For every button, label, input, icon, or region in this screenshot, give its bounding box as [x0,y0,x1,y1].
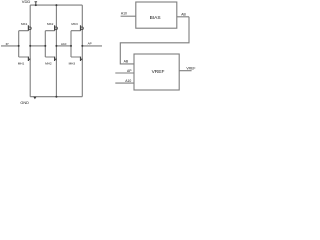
wire node AP [82,45,102,47]
ground symbol [33,97,36,100]
svg-text:A10: A10 [121,12,127,16]
wire VDD top rail [30,4,82,6]
transistor MK1 PMOS [28,25,31,30]
svg-text:AB: AB [181,12,186,16]
pin AB of BIAS [177,16,189,18]
wire channel column 2 [55,5,57,97]
transistor MH2 NMOS [54,57,56,61]
wire node A10 [56,45,71,47]
wire input IP [1,45,19,47]
block U1 BIAS [136,2,177,28]
pin A10 of BIAS [121,15,136,17]
wire net AB wrap-around [120,17,189,64]
transistor MK2 PMOS [55,25,58,30]
svg-text:MH1: MH1 [18,62,25,66]
svg-text:MH2: MH2 [45,62,52,66]
pin A10 of VREF [115,82,134,84]
svg-text:VDD: VDD [22,0,31,4]
wire GND bottom rail [30,96,82,98]
wire node stage1 output [30,45,45,47]
svg-text:AP: AP [88,42,92,46]
svg-text:AB: AB [124,59,129,63]
transistor MH1 NMOS [28,57,30,61]
svg-text:A10: A10 [61,42,67,46]
transistor MK3 PMOS [81,25,84,30]
VDD power symbol [35,2,38,6]
wire gate bus 1 [19,31,29,57]
svg-text:MK3: MK3 [71,22,78,26]
pin VREF output [179,70,191,72]
svg-text:MK2: MK2 [47,22,54,26]
svg-text:VREF: VREF [186,67,195,71]
svg-text:MK1: MK1 [21,22,28,26]
svg-text:BIAS: BIAS [150,15,161,21]
svg-text:A10: A10 [125,79,131,83]
wire channel column 1 [29,5,31,97]
wire gate bus 2 [45,31,54,57]
svg-text:VREF: VREF [152,69,165,75]
transistor MH3 NMOS [80,57,82,61]
junction dots [18,4,84,98]
svg-text:GND: GND [20,101,29,105]
svg-text:MH3: MH3 [69,62,76,66]
block U2 VREF [134,54,179,90]
pin AP of VREF [115,72,134,74]
wire channel column 3 [81,5,83,97]
svg-text:AP: AP [127,69,132,73]
wire gate bus 3 [71,31,81,57]
svg-text:IP: IP [6,42,9,46]
